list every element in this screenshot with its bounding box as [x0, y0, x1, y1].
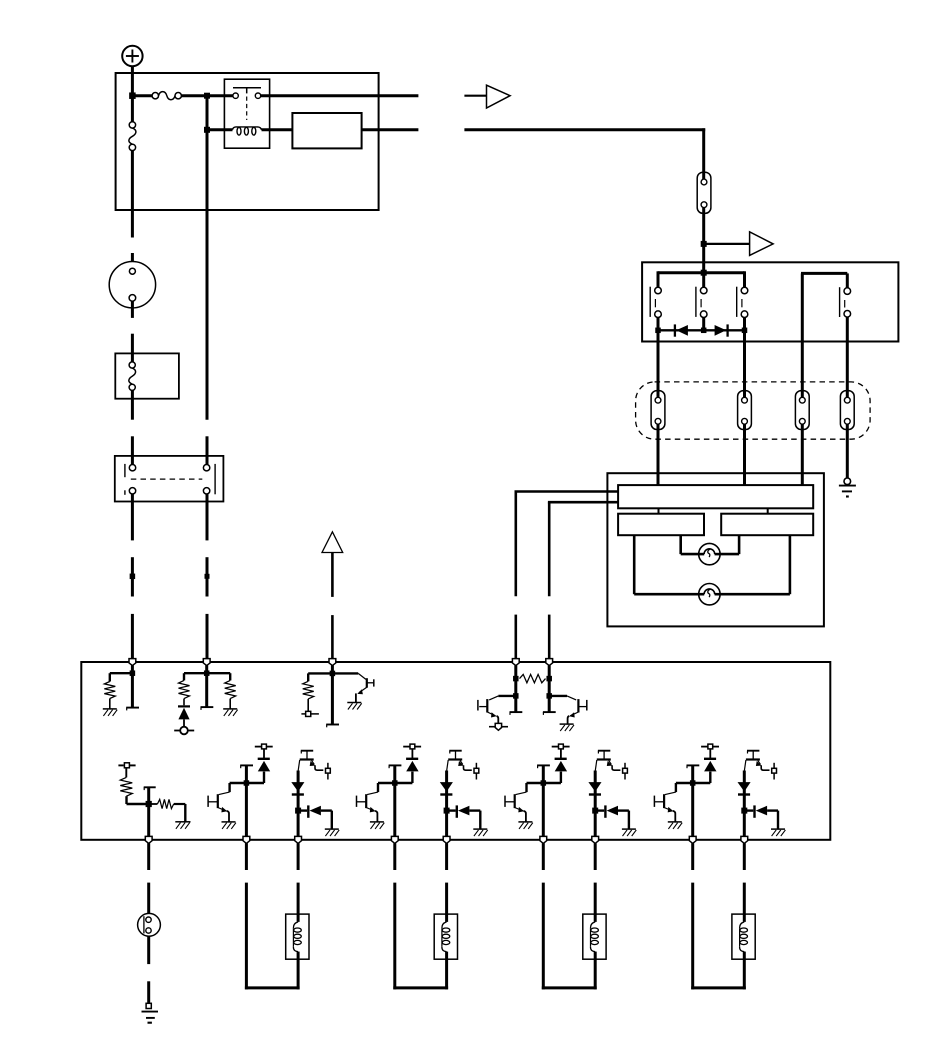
node D junction	[701, 241, 707, 247]
wire column 2 seg c	[206, 614, 209, 659]
lamp module block left	[618, 514, 704, 536]
ground under Q6	[370, 821, 384, 823]
node driver 2 right	[444, 808, 450, 814]
wire driver 1 left vertical	[245, 765, 248, 837]
wire T2 internal	[205, 666, 208, 707]
inline pin T8	[489, 723, 508, 730]
diode D2 (points right)	[715, 324, 728, 336]
inline pin at Q11 emitter	[772, 763, 777, 780]
fuse F1	[152, 92, 181, 100]
wire T1 internal	[131, 666, 134, 708]
module box (unlabeled)	[292, 113, 361, 148]
switch S4	[840, 287, 851, 403]
node under switch S2	[701, 328, 707, 334]
wire injector 4 left seg a	[691, 843, 694, 870]
wire left feed 1	[515, 490, 619, 493]
harness connector group (dashed outline)	[636, 382, 871, 439]
wire ignition down seg a	[131, 301, 134, 318]
injector solenoid coil L5	[583, 914, 606, 959]
wire injector 4 bottom link	[691, 986, 746, 989]
wire T2 right branch	[207, 672, 231, 674]
wire column 2 seg a	[206, 494, 209, 540]
wire relay contact output	[261, 94, 419, 97]
resistor R4	[303, 681, 314, 699]
wire to lamp L1 right	[720, 535, 739, 554]
diode D4 (points up)	[246, 749, 270, 783]
termination driver 1 left top	[240, 764, 253, 766]
terminal TB7	[592, 836, 599, 843]
wire CN4 to lamp unit	[801, 424, 804, 486]
wire fusible link down	[131, 151, 134, 238]
wire injector 1 right seg b	[297, 883, 300, 915]
wire arrow C down seg b	[331, 615, 334, 659]
termination above node F	[144, 786, 156, 788]
termination driver 4 left top	[687, 764, 700, 766]
wire left feed 2	[548, 501, 618, 504]
wire injector 1 left seg b	[245, 883, 248, 990]
wire CN5 to ground	[846, 424, 849, 478]
wire R2 to diode D3	[183, 699, 185, 706]
termination driver 1 right top	[301, 750, 313, 752]
wire T3 left branch	[308, 672, 333, 674]
termination T1 internal	[126, 707, 139, 709]
diode D6 (points up)	[543, 749, 567, 783]
wire T3 internal	[331, 666, 334, 725]
wire injector 3 right seg b	[594, 883, 597, 915]
inline pin at Q5 emitter	[326, 763, 331, 780]
wire injector 4 right seg c	[743, 959, 746, 989]
injector solenoid coil L6	[732, 914, 755, 959]
relay K2 pins	[129, 465, 210, 494]
wire injector 3 left seg b	[542, 883, 545, 990]
lamp assembly enclosure	[607, 473, 824, 626]
node T1 junction	[130, 670, 136, 676]
wire R1 to ground	[109, 699, 111, 709]
diode D12 (points left)	[298, 805, 332, 829]
node driver 3 left	[541, 780, 547, 786]
node driver 2 left	[392, 780, 398, 786]
transistor Q5	[298, 751, 323, 771]
wire column 1 seg c	[131, 614, 134, 659]
terminal TB3	[295, 836, 302, 843]
diode D3 (points up)	[178, 706, 190, 719]
wire R7 to ground	[184, 804, 186, 822]
wire to ignition switch	[131, 253, 134, 268]
inline terminal (square) T7	[301, 711, 319, 716]
arrow A (continues to other sheet)	[487, 85, 511, 108]
connector CN6 (round)	[138, 913, 161, 936]
ground under D13	[473, 828, 487, 830]
wire injector 4 right seg a	[743, 843, 746, 870]
ignition switch	[109, 262, 155, 308]
wire to arrow B	[704, 243, 750, 245]
node under switch S3	[742, 328, 748, 334]
inline pin above D4	[255, 744, 273, 749]
terminal TB9	[741, 836, 748, 843]
wire driver 2 left vertical	[393, 765, 396, 837]
wire driver 4 right vertical	[743, 771, 746, 838]
wire battery to fuse box	[131, 66, 134, 93]
wire injector 3 left seg a	[542, 843, 545, 870]
node B junction	[204, 93, 210, 99]
wire CN6 down seg b	[147, 981, 150, 1003]
resistor R6	[120, 777, 132, 796]
node driver 4 right	[741, 808, 747, 814]
wire driver 3 left vertical	[542, 765, 545, 837]
relay K2 right contact bar	[214, 464, 216, 494]
wire long feed to right	[464, 128, 705, 131]
wire switch S3 down	[743, 330, 746, 403]
control unit enclosure	[81, 662, 830, 840]
wire T3 right branch	[332, 672, 358, 674]
wire node F vertical	[147, 787, 150, 837]
ground under Q10	[668, 821, 682, 823]
wire T4 internal	[514, 666, 517, 712]
transistor Q11	[744, 751, 769, 771]
arrow B (continues to other sheet)	[750, 232, 774, 256]
termination driver 2 right top	[449, 750, 461, 752]
terminal T1	[129, 659, 136, 666]
wire injector 4 right seg b	[743, 883, 746, 915]
link bus to left block	[658, 508, 660, 513]
ground under D15	[771, 828, 785, 830]
switch S1	[650, 271, 661, 331]
wire injector 2 bottom link	[393, 986, 448, 989]
wire driver 1 right vertical	[297, 771, 300, 838]
relay K1 coil	[207, 127, 262, 135]
wire fuse F2 down seg a	[131, 390, 134, 419]
wire injector 3 right seg c	[594, 959, 597, 989]
termination T3 internal	[326, 724, 339, 726]
wire T5 internal	[548, 666, 551, 712]
resistor R7	[149, 803, 158, 805]
wire injector 1 bottom link	[245, 986, 300, 989]
wire CN2 to lamp unit	[657, 424, 660, 486]
node driver 4 left	[690, 780, 696, 786]
relay K2 left contact bar	[124, 464, 126, 495]
fusible link FL1	[129, 96, 136, 151]
switch box bus wire	[658, 271, 745, 274]
ground G5	[560, 723, 574, 725]
ground G7 (battery return)	[142, 1003, 159, 1022]
link bus to right block	[767, 508, 769, 513]
wire ignition down seg b	[131, 334, 134, 362]
terminal TB8	[689, 836, 696, 843]
wire injector 2 left seg b	[393, 883, 396, 990]
node A junction	[129, 92, 136, 99]
relay K1 box	[224, 79, 269, 148]
connector CN4	[795, 391, 809, 430]
wire node B down to coil	[206, 96, 209, 130]
termination T5 internal	[543, 711, 556, 713]
node driver 1 left	[244, 780, 250, 786]
termination driver 4 right top	[747, 750, 759, 752]
ground under D12	[325, 828, 339, 830]
ground under D14	[622, 828, 636, 830]
wire T1 branch	[110, 672, 133, 674]
wire to lamp L2 left	[634, 535, 699, 594]
ground under Q4	[222, 821, 236, 823]
wire lamp feed 1 upper	[514, 492, 517, 597]
wire lamp feed 1 lower	[514, 615, 517, 660]
splice node column 2	[205, 574, 210, 579]
switch box enclosure	[642, 262, 898, 341]
diode bus wire	[658, 329, 745, 331]
switch S3	[737, 271, 748, 331]
wire T2 left branch	[184, 672, 207, 674]
relay K1 actuator dashed link	[246, 97, 248, 121]
ground G4	[347, 702, 361, 704]
inline terminal (circle) T6	[174, 727, 194, 735]
wire lamp feed 2 upper	[548, 502, 551, 596]
wire feed corner down	[702, 128, 705, 179]
terminal TB2	[243, 836, 250, 843]
node T4 junction a	[513, 676, 519, 682]
wire switch S4 feed	[801, 273, 847, 403]
termination T2 internal	[201, 706, 214, 708]
diode D15 (points left)	[744, 805, 778, 829]
terminal TB1	[145, 836, 152, 843]
termination T4 internal	[510, 711, 523, 713]
wire fuse F2 down seg b	[131, 436, 134, 464]
fuse/relay box (dash control unit) enclosure	[116, 73, 379, 210]
node C junction at coil	[204, 127, 210, 133]
wire injector 1 left seg a	[245, 843, 248, 870]
terminal T5	[546, 659, 553, 666]
wire injector 2 right seg c	[445, 959, 448, 989]
wire injector 3 bottom link	[542, 986, 597, 989]
terminal TB4	[391, 836, 398, 843]
injector solenoid coil L3	[286, 914, 309, 959]
terminal TB6	[540, 836, 547, 843]
transistor Q9	[595, 751, 620, 771]
diode D8 (points down)	[291, 782, 304, 794]
wire lamp feed 2 lower	[548, 615, 551, 660]
transistor Q2	[478, 696, 516, 723]
lamp module block right	[721, 514, 813, 536]
wire injector 3 right seg a	[594, 843, 597, 870]
relay K1 contacts	[233, 88, 261, 99]
wire fuse F1 to node B	[181, 94, 233, 97]
ground G3	[223, 708, 237, 710]
resistor R3	[225, 680, 236, 698]
wire injector 2 right seg b	[445, 883, 448, 915]
transistor Q1	[356, 673, 374, 702]
wire pin to R6	[125, 768, 127, 778]
injector solenoid coil L4	[434, 914, 457, 959]
wire driver 2 right vertical	[445, 771, 448, 838]
resistor R1	[104, 682, 115, 699]
inline pin above D5	[403, 744, 421, 749]
wire to arrow A	[464, 95, 486, 97]
node T5 junction a	[546, 676, 552, 682]
node F junction	[146, 801, 152, 807]
diode D1 (points left)	[675, 324, 688, 336]
node under switch S1	[655, 328, 661, 334]
ground G6	[175, 821, 190, 823]
splice node column 1	[130, 574, 136, 580]
fuse box 2	[115, 353, 179, 398]
fuse F2	[129, 362, 136, 391]
wire injector 2 right seg a	[445, 843, 448, 870]
wire column 2 resume	[206, 436, 209, 464]
diode D11 (points down)	[738, 782, 751, 794]
wire TB1 down seg b	[147, 883, 150, 914]
wire CN3 to lamp unit	[743, 424, 746, 486]
wire arrow C down seg a	[331, 553, 334, 597]
node T2 junction	[204, 670, 210, 676]
wire D3 to terminal	[183, 719, 185, 727]
transistor Q10	[654, 783, 692, 822]
transistor Q8	[505, 783, 543, 822]
wire to lamp L1 left	[681, 535, 699, 554]
wire module to edge	[362, 128, 419, 131]
arrow C (from other sheet, points up)	[322, 532, 343, 553]
termination driver 3 left top	[537, 764, 550, 766]
node driver 3 right	[592, 808, 598, 814]
ground G1 (right)	[839, 478, 856, 497]
wire injector 2 left seg a	[393, 843, 396, 870]
switch S2	[696, 271, 707, 331]
wire R6 down	[125, 796, 127, 804]
diode D10 (points down)	[588, 782, 601, 794]
resistor R2	[179, 680, 190, 698]
inline pin at Q9 emitter	[623, 763, 628, 780]
connector CN5	[840, 391, 854, 430]
node driver 1 right	[295, 808, 301, 814]
wire switch S1 down	[657, 330, 660, 403]
terminal T4	[512, 659, 519, 666]
lamp L1	[699, 543, 720, 564]
wire injector 1 right seg c	[297, 959, 300, 989]
ground under Q8	[518, 821, 532, 823]
transistor Q7	[447, 751, 472, 771]
relay K2 box	[115, 456, 224, 502]
wire column 2 long	[206, 130, 209, 420]
diode D9 (points down)	[440, 782, 453, 794]
diode D7 (points up)	[693, 749, 717, 783]
wire R3 to ground	[229, 699, 231, 709]
relay K2 dashed link	[131, 478, 203, 480]
wire injector 4 left seg b	[691, 883, 694, 990]
connector CN2	[651, 391, 665, 430]
wire driver 3 right vertical	[594, 771, 597, 838]
node T5 junction b	[546, 693, 552, 699]
inline pin above D6	[552, 744, 570, 749]
lamp L2	[699, 584, 720, 605]
termination driver 3 right top	[598, 750, 610, 752]
inline pin at Q7 emitter	[474, 763, 479, 780]
wire TB1 down seg a	[147, 843, 150, 870]
transistor Q6	[357, 783, 395, 822]
wire column 1 seg b	[131, 557, 134, 596]
wire connector CN1 down	[702, 208, 705, 274]
termination driver 2 left top	[389, 764, 402, 766]
lamp assembly bus block	[618, 485, 813, 508]
battery positive terminal	[122, 46, 142, 66]
terminal TB5	[443, 836, 450, 843]
wire injector 1 right seg a	[297, 843, 300, 870]
wire driver 4 left vertical	[691, 765, 694, 837]
wire column 1 seg a	[131, 494, 134, 540]
node E junction on bus	[701, 270, 707, 276]
diode D5 (points up)	[395, 749, 419, 783]
ground G2	[103, 708, 117, 710]
node T3 junction	[330, 671, 336, 677]
resistor R5 (between T4 and T5)	[520, 674, 546, 682]
inline pin above D7	[701, 744, 719, 749]
wire R4 to pin	[307, 699, 309, 712]
connector CN3	[738, 391, 752, 430]
wire coil line to module	[262, 128, 293, 131]
wire node A to fuse F1	[132, 94, 152, 97]
terminal T3	[329, 659, 336, 666]
transistor Q3	[549, 696, 587, 724]
terminal T2	[203, 659, 210, 666]
inline pin above R6	[118, 763, 135, 768]
transistor Q4	[208, 783, 246, 822]
diode D14 (points left)	[595, 805, 629, 829]
inline connector CN1	[697, 172, 711, 213]
wire CN6 down seg a	[147, 936, 150, 964]
diode D13 (points left)	[447, 805, 481, 829]
wire to lamp L2 right	[720, 535, 790, 594]
wire column 2 seg b	[206, 557, 209, 596]
node T4 junction b	[513, 693, 519, 699]
